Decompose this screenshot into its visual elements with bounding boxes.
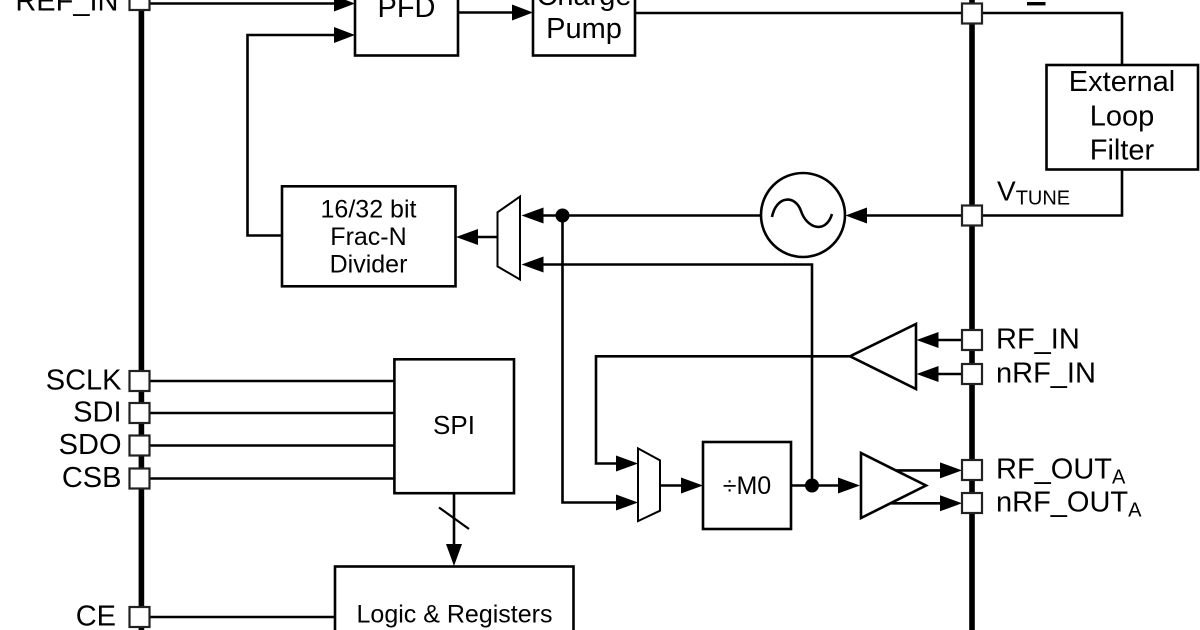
wire nRF_IN pin to amp A1	[938, 373, 962, 376]
wire divider M0 feedback to mux U2 lower input	[544, 265, 813, 486]
svg-text:SDO: SDO	[59, 429, 122, 461]
pin CP_OUT	[962, 4, 982, 24]
wire divider M0 output to buffer A2	[791, 484, 839, 487]
buffer A2 (RF output buffer)	[861, 453, 926, 518]
svg-text:REF_IN: REF_IN	[15, 0, 118, 18]
pin SDO	[130, 436, 150, 456]
svg-text:÷M0: ÷M0	[723, 472, 771, 500]
svg-text:Frac-N: Frac-N	[330, 223, 406, 251]
label fragment above loop filter	[1027, 2, 1046, 5]
block PFD U4	[355, 0, 458, 56]
svg-text:RF_OUTA: RF_OUTA	[996, 454, 1126, 489]
svg-text:SDI: SDI	[73, 397, 121, 429]
wire VTUNE pin to VCO	[866, 214, 962, 217]
svg-text:CE: CE	[76, 601, 116, 630]
wire buffer A2 to nRF_OUTA pin	[891, 502, 941, 505]
svg-text:Divider: Divider	[330, 251, 408, 279]
wire SDI pin to SPI	[150, 412, 395, 415]
svg-text:CSB: CSB	[62, 462, 122, 494]
pin nRF_OUTA	[962, 493, 982, 513]
svg-text:Charge: Charge	[536, 0, 631, 12]
block external loop filter	[1047, 65, 1199, 170]
svg-text:SPI: SPI	[433, 410, 475, 440]
pin RF_IN	[962, 330, 982, 350]
svg-text:PFD: PFD	[378, 0, 436, 24]
svg-text:nRF_OUTA: nRF_OUTA	[996, 487, 1142, 522]
wire VCO output to node A and mux U2 input	[544, 214, 762, 217]
svg-text:SCLK: SCLK	[46, 365, 122, 397]
bus slash mark	[439, 508, 469, 530]
wire SPI to logic and registers (bus)	[453, 493, 456, 545]
pin VTUNE	[962, 206, 982, 226]
pin CE	[130, 607, 150, 627]
node A junction dot on VCO output	[556, 209, 570, 223]
wire CE pin to logic block	[150, 616, 336, 619]
mux U3 (output divider select)	[638, 448, 660, 521]
VCO U6	[761, 173, 845, 257]
pin SCLK	[130, 371, 150, 391]
node REF_IN bus (left vertical rail)	[139, 8, 145, 630]
block charge pump U5	[533, 0, 635, 56]
svg-text:16/32 bit: 16/32 bit	[321, 196, 417, 224]
svg-text:Pump: Pump	[546, 13, 622, 45]
wire RF_IN amp output to mux U3 upper input	[596, 356, 850, 463]
node RF bus (right vertical rail)	[969, 0, 975, 630]
block divider M0	[703, 442, 791, 529]
wire charge pump to external loop filter	[635, 13, 1122, 64]
amp A1 (RF_IN input amp)	[850, 324, 916, 389]
pin nRF_IN	[962, 364, 982, 384]
svg-text:nRF_IN: nRF_IN	[996, 358, 1096, 390]
svg-text:RF_IN: RF_IN	[996, 324, 1080, 356]
svg-text:Filter: Filter	[1090, 135, 1155, 167]
pin SDI	[130, 403, 150, 423]
node B junction dot on M0 output	[805, 479, 819, 493]
wire RF_IN pin to amp A1	[938, 339, 962, 342]
wire REF_IN pin to PFD input	[150, 2, 335, 5]
wire node A down to mux U3 lower input	[563, 216, 618, 503]
pin REF_IN	[130, 0, 150, 10]
wire mux U2 output to Frac-N divider	[477, 236, 498, 239]
block SPI	[394, 359, 514, 493]
svg-text:Loop: Loop	[1090, 101, 1155, 133]
wire Frac-N divider output to PFD input	[248, 35, 336, 236]
wire buffer A2 to RF_OUTA pin	[895, 469, 941, 472]
block logic and registers	[335, 567, 574, 630]
mux U2 (feedback select)	[498, 197, 521, 280]
wire PFD to charge pump	[458, 11, 513, 14]
pin RF_OUTA	[962, 460, 982, 480]
wire SDO pin to SPI	[150, 444, 395, 447]
wire mux U3 output to divider M0	[660, 484, 682, 487]
wire external loop filter to VTUNE pin	[982, 169, 1122, 216]
block 16/32 bit Frac-N divider	[282, 186, 456, 286]
wire CSB pin to SPI	[150, 477, 395, 480]
pin CSB	[130, 469, 150, 489]
wire SCLK pin to SPI	[150, 380, 395, 383]
svg-text:Logic & Registers: Logic & Registers	[357, 601, 553, 629]
svg-text:External: External	[1069, 66, 1175, 98]
